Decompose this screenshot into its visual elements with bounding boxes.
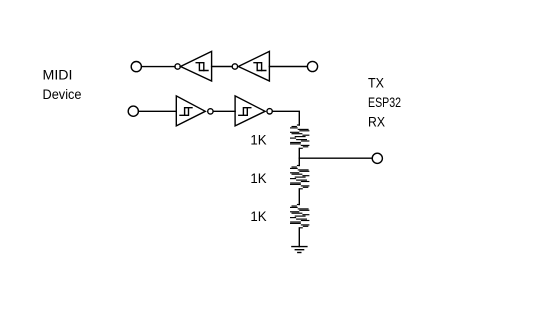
svg-text:ESP32: ESP32 (368, 94, 401, 110)
wire (298, 228, 300, 247)
bubble of inverter U3 (208, 109, 213, 114)
hysteresis symbol of U2 (254, 63, 262, 71)
svg-text:RX: RX (368, 114, 386, 130)
resistor R1 1K (290, 125, 309, 148)
inverter U4 (right-facing schmitt trigger) (235, 96, 265, 126)
svg-text:MIDI: MIDI (43, 67, 73, 83)
svg-text:1K: 1K (250, 131, 267, 147)
wire (213, 110, 235, 112)
hysteresis symbol of U4 (239, 108, 248, 116)
wire (298, 189, 300, 205)
node MIDI-TX terminal (top-left open circle) (131, 62, 141, 72)
resistor R3 1K (290, 205, 309, 228)
node MIDI-RX terminal (bottom-left open circle) (128, 106, 138, 116)
svg-text:1K: 1K (250, 170, 267, 186)
inverter U3 (right-facing schmitt trigger) (176, 96, 205, 126)
svg-text:1K: 1K (250, 208, 267, 224)
ground (292, 246, 307, 248)
bubble of inverter U4 (267, 109, 272, 114)
inverter U1 (left-facing schmitt trigger) (181, 51, 212, 81)
wire (tap to ESP32 RX) (299, 157, 372, 159)
wire (212, 66, 233, 68)
bubble of inverter U2 (232, 64, 237, 69)
wire (269, 66, 307, 68)
wire (272, 111, 299, 125)
resistor R2 1K (290, 166, 309, 189)
wire (298, 148, 300, 165)
hysteresis symbol of U1 (196, 63, 204, 71)
node ESP32-TX terminal (top-right open circle) (307, 61, 317, 71)
node ESP32-RX terminal (open circle) (372, 153, 382, 163)
inverter U2 (left-facing schmitt trigger) (238, 51, 269, 81)
bubble of inverter U1 (175, 64, 180, 69)
svg-text:Device: Device (43, 86, 82, 102)
wire (142, 66, 175, 68)
wire (139, 110, 177, 112)
hysteresis symbol of U3 (180, 108, 189, 116)
svg-text:TX: TX (368, 74, 385, 90)
